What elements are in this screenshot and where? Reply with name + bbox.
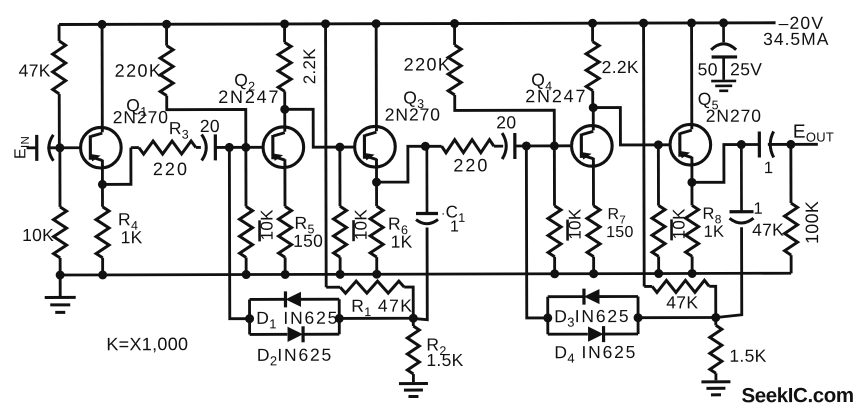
svg-text:25V: 25V bbox=[730, 59, 762, 79]
wire diode box left side (right network) bbox=[546, 297, 549, 334]
label 220 (stage 3-4) bbox=[453, 155, 489, 175]
resistor 220 coupling (stage 3-4) bbox=[442, 140, 504, 153]
resistor 2.2K load (stage 4) bbox=[586, 23, 599, 107]
svg-text:1K: 1K bbox=[704, 223, 725, 241]
wire Q1 emitter lead bbox=[101, 165, 104, 185]
label 50 bbox=[698, 59, 718, 79]
wire D3 branch top bbox=[548, 295, 638, 298]
wire Q2 collector bbox=[283, 109, 286, 129]
wire Q3 emitter to coupling network bbox=[376, 146, 441, 182]
node bus 10K-5 bbox=[655, 270, 663, 278]
overline mark (10K stage 4) bbox=[566, 220, 569, 241]
node bus R6 bbox=[373, 270, 381, 278]
label 1 (C1) bbox=[450, 218, 459, 235]
svg-text:1: 1 bbox=[450, 218, 459, 235]
label 1.5K (right) bbox=[729, 346, 766, 366]
resistor R1 47K bbox=[326, 281, 413, 318]
wire -20V supply rail bbox=[59, 23, 775, 25]
label 10K rotated (stage 3) bbox=[352, 209, 371, 241]
label R4 bbox=[118, 209, 138, 233]
wire Q5 collector to rail bbox=[690, 23, 693, 126]
resistor 100K output load bbox=[784, 144, 797, 273]
label 20 (cap) bbox=[200, 116, 220, 136]
wire rail branch to 47K bbox=[642, 23, 645, 286]
capacitor 1uF output coupling bbox=[759, 131, 773, 157]
svg-text:D4 IN625: D4 IN625 bbox=[554, 342, 637, 366]
svg-text:47K: 47K bbox=[752, 220, 784, 240]
svg-text:47K: 47K bbox=[666, 292, 698, 312]
node bus R7 bbox=[590, 270, 598, 278]
label 2N247 (Q2) bbox=[218, 87, 280, 107]
wire Q5 emitter lead bbox=[690, 162, 693, 182]
wire D2 branch bottom bbox=[250, 333, 340, 336]
svg-text:47K: 47K bbox=[19, 60, 51, 80]
wire Q5 emitter to output cap bbox=[692, 144, 759, 182]
transistor Q3 bbox=[355, 125, 396, 168]
node input/base bias junction bbox=[56, 144, 64, 152]
svg-text:2.2K: 2.2K bbox=[300, 48, 319, 85]
svg-text:220: 220 bbox=[153, 159, 189, 179]
svg-text:SeekIC.com: SeekIC.com bbox=[741, 384, 853, 407]
label R5 bbox=[295, 213, 315, 237]
node rail junction 2.2K bbox=[281, 20, 289, 28]
node Q4 base bias junction bbox=[550, 142, 558, 150]
node rail junction 47K branch bbox=[640, 19, 648, 27]
svg-text:220: 220 bbox=[453, 155, 489, 175]
wire output cap to E_OUT bbox=[768, 143, 818, 146]
label R7 bbox=[607, 206, 626, 227]
ground (R2) bbox=[399, 384, 428, 397]
ground (1.5K right) bbox=[701, 382, 730, 395]
label 47K bbox=[19, 60, 51, 80]
svg-text:D2IN625: D2IN625 bbox=[257, 345, 333, 369]
resistor 10K bias (Q4 base) bbox=[548, 146, 561, 274]
node D3-D4 right bbox=[634, 314, 642, 322]
overline mark (10K stage 3) bbox=[352, 220, 355, 241]
node Q3 emitter junction bbox=[373, 178, 381, 186]
wire D network to 1.5K node bbox=[638, 316, 716, 319]
node Q4 collector junction bbox=[589, 104, 597, 112]
capacitor 50uF 25V filter bbox=[711, 23, 737, 80]
node Q2 base bias junction bbox=[242, 143, 250, 151]
node bus ground tap bbox=[56, 271, 64, 279]
node Q5 emitter junction bbox=[688, 178, 696, 186]
wire C1 to feedback node bbox=[414, 228, 427, 320]
wire Q4 emitter lead bbox=[592, 164, 595, 206]
watermark SeekIC.com bbox=[741, 384, 853, 407]
svg-text:220K: 220K bbox=[404, 54, 452, 74]
label 10K rotated (stage 5) bbox=[670, 208, 689, 240]
label Q5 bbox=[698, 89, 719, 113]
node 47K 1.5K feedback junction bbox=[712, 313, 720, 321]
resistor 10K bias (Q5 base) bbox=[652, 145, 665, 274]
svg-text:1K: 1K bbox=[391, 232, 413, 252]
capacitor C1 bbox=[416, 146, 438, 224]
diode D3 1N625 bbox=[584, 289, 600, 305]
node rail junction R1 branch bbox=[322, 20, 330, 28]
node rail junction filter cap bbox=[720, 19, 728, 27]
wire Q3 collector to rail bbox=[375, 24, 378, 128]
wire Q3 emitter lead bbox=[375, 164, 378, 182]
node rail junction 2.2K-2 bbox=[589, 19, 597, 27]
svg-text:1K: 1K bbox=[121, 227, 143, 247]
transistor Q1 bbox=[81, 126, 122, 169]
wire cap to Q4 base bbox=[514, 144, 570, 147]
svg-text:R1 47K: R1 47K bbox=[351, 296, 413, 320]
label Q1 bbox=[126, 95, 147, 119]
label 2N247 (Q4) bbox=[525, 86, 587, 106]
capacitor C_in input coupling bbox=[37, 135, 54, 161]
node D1-D2 left bbox=[246, 315, 254, 323]
wire diode box right side bbox=[338, 299, 341, 334]
wire D4 branch bottom bbox=[548, 333, 638, 336]
svg-text:150: 150 bbox=[606, 224, 634, 241]
wire diode box right side (right network) bbox=[637, 296, 640, 333]
wire Q1 collector to rail bbox=[101, 24, 104, 129]
capacitor 1uF feedback (47K node) bbox=[729, 145, 753, 224]
node bus 10K-4 bbox=[551, 270, 559, 278]
svg-text:EOUT: EOUT bbox=[793, 122, 834, 145]
svg-text:2N247: 2N247 bbox=[218, 87, 280, 107]
resistor 47K bias (top left) bbox=[53, 24, 66, 147]
resistor R6 1K bbox=[370, 182, 383, 274]
svg-text:2N270: 2N270 bbox=[385, 104, 441, 124]
resistor R8 1K bbox=[685, 182, 698, 273]
svg-text:1.5K: 1.5K bbox=[426, 350, 463, 370]
svg-text:50: 50 bbox=[698, 59, 718, 79]
svg-text:1: 1 bbox=[764, 159, 774, 177]
label R6 bbox=[388, 214, 408, 238]
svg-text:100K: 100K bbox=[802, 201, 822, 244]
wire Q2 input to diode network bbox=[229, 147, 249, 318]
wire D network to R2 node bbox=[339, 317, 413, 320]
svg-text:D3IN625: D3IN625 bbox=[554, 306, 630, 330]
resistor 47K feedback bbox=[644, 280, 716, 317]
wire Q4 collector bbox=[592, 108, 595, 128]
resistor 10K bias (stage 3 input) bbox=[239, 147, 252, 274]
overline mark (10K stage 2) bbox=[258, 220, 261, 241]
wire Q2 emitter lead bbox=[283, 164, 286, 206]
node rail junction 220K-2 bbox=[451, 20, 459, 28]
node Q1 emitter junction bbox=[98, 180, 106, 188]
wire feedback cap to node bbox=[716, 227, 742, 317]
resistor R5 150 bbox=[278, 206, 291, 274]
capacitor 20uF coupling (stage 1-2) bbox=[202, 134, 216, 160]
label 1 (feedback cap) bbox=[753, 200, 763, 218]
node D3-D4 left bbox=[544, 314, 552, 322]
transistor Q2 bbox=[263, 126, 304, 169]
label 100K rotated bbox=[802, 201, 822, 244]
node bus R4 bbox=[99, 271, 107, 279]
wire Q1 emitter to R3 bbox=[102, 148, 131, 185]
node C1 branch junction bbox=[421, 142, 429, 150]
svg-text:220K: 220K bbox=[115, 61, 163, 81]
svg-text:1: 1 bbox=[753, 200, 763, 218]
node R1 R2 feedback junction bbox=[409, 314, 417, 322]
label 2N270 (Q5) bbox=[706, 106, 762, 126]
resistor R4 1K bbox=[96, 184, 109, 275]
label R8 bbox=[702, 205, 721, 227]
resistor 220K bias (stage 4) bbox=[448, 23, 554, 146]
wire diode box left side bbox=[248, 299, 251, 334]
label C1 bbox=[441, 202, 466, 225]
label 47K (feedback cap) bbox=[752, 220, 784, 240]
node bus R5 bbox=[281, 270, 289, 278]
node Q2 collector junction bbox=[281, 105, 289, 113]
node E_OUT junction bbox=[787, 140, 795, 148]
label -20V bbox=[779, 13, 825, 33]
svg-text:20: 20 bbox=[496, 112, 516, 132]
resistor 10K bias (Q3 base) bbox=[333, 147, 346, 274]
wire ground bus bbox=[60, 273, 791, 275]
label R1 47K bbox=[351, 296, 413, 320]
node D3 network branch bbox=[522, 142, 530, 150]
wire Q4 collector to Q5 base bbox=[593, 107, 668, 145]
wire rail branch to R1 bbox=[324, 24, 327, 287]
label 1K (R4) bbox=[121, 227, 143, 247]
label 10K rotated (stage 4) bbox=[566, 208, 585, 240]
resistor 2.2K load (stage 2) bbox=[278, 24, 291, 109]
transistor Q4 bbox=[571, 125, 612, 168]
label 10K bbox=[22, 225, 54, 245]
diode D2 1N625 bbox=[288, 326, 304, 342]
label 1.5K (R2) bbox=[426, 350, 463, 370]
resistor R7 150 bbox=[587, 206, 600, 274]
wire Q4 input to diode network bbox=[526, 146, 547, 318]
node bus 10K-2 bbox=[242, 271, 250, 279]
svg-text:20: 20 bbox=[200, 116, 220, 136]
label Q3 bbox=[403, 88, 424, 112]
svg-text:R3: R3 bbox=[169, 118, 189, 142]
transistor Q5 bbox=[670, 123, 711, 166]
label 20 (cap stage 3-4) bbox=[496, 112, 516, 132]
svg-text:150: 150 bbox=[293, 231, 323, 251]
resistor 220K bias (stage 2) bbox=[160, 24, 246, 148]
resistor R2 1.5K bbox=[407, 318, 419, 382]
ground (main) bbox=[45, 297, 76, 312]
svg-text:K=X1,000: K=X1,000 bbox=[106, 334, 188, 354]
svg-text:10K: 10K bbox=[22, 225, 54, 245]
label Q4 bbox=[531, 70, 552, 94]
wire D1 branch top bbox=[250, 298, 340, 301]
label 47K (feedback) bbox=[666, 292, 698, 312]
label 220 (R3) bbox=[153, 159, 189, 179]
svg-text:2N270: 2N270 bbox=[706, 106, 762, 126]
node D1-D2 right bbox=[335, 314, 343, 322]
wire Q2 collector to Q3 base bbox=[285, 109, 354, 147]
label 1 (output cap) bbox=[764, 159, 774, 177]
diode D4 1N625 bbox=[588, 326, 604, 342]
resistor 10K bias (stage 1) bbox=[53, 148, 66, 275]
label 1K (R6) bbox=[391, 232, 413, 252]
label K=X1,000 note bbox=[106, 334, 188, 354]
node Q3 base bias junction bbox=[336, 143, 344, 151]
label D1 1N625 bbox=[256, 308, 339, 332]
label D4 1N625 bbox=[554, 342, 637, 366]
label D3 1N625 bbox=[554, 306, 630, 330]
label 220K bbox=[115, 61, 163, 81]
node rail junction Q3 collector bbox=[372, 20, 380, 28]
label 2N270 (Q3) bbox=[385, 104, 441, 124]
svg-text:34.5MA: 34.5MA bbox=[763, 29, 829, 49]
resistor R3 220 bbox=[131, 141, 201, 154]
label 150 (R5) bbox=[293, 231, 323, 251]
label E_OUT terminal bbox=[793, 122, 834, 145]
label D2 1N625 bbox=[257, 345, 333, 369]
svg-text:1.5K: 1.5K bbox=[729, 346, 766, 366]
node rail junction 220K bbox=[163, 20, 171, 28]
label 10K rotated (stage 2) bbox=[258, 209, 277, 241]
wire E_IN lead bbox=[27, 146, 37, 149]
label 34.5MA bbox=[763, 29, 829, 49]
node bus R8 bbox=[688, 269, 696, 277]
label 2.2K (stage 4) bbox=[602, 57, 639, 77]
label 1K (R8) bbox=[704, 223, 725, 241]
wire input cap to base node bbox=[47, 146, 79, 149]
label R2 bbox=[426, 334, 446, 358]
svg-text:2N270: 2N270 bbox=[113, 107, 169, 127]
ground (filter cap) bbox=[711, 81, 736, 91]
label 2N270 (Q1) bbox=[113, 107, 169, 127]
node output cap / 47K cap junction bbox=[737, 141, 745, 149]
label R3 bbox=[169, 118, 189, 142]
node rail junction Q1 collector bbox=[98, 20, 106, 28]
wire ground lead bbox=[59, 275, 62, 297]
overline mark (10K stage 5) bbox=[670, 219, 673, 240]
svg-text:2.2K: 2.2K bbox=[602, 57, 639, 77]
node D1 network branch bbox=[225, 143, 233, 151]
diode D1 1N625 bbox=[285, 291, 301, 307]
label E_IN terminal bbox=[12, 136, 32, 159]
node Q5 base bias junction bbox=[654, 141, 662, 149]
node rail junction Q5 collector bbox=[688, 19, 696, 27]
wire cap to Q2 base bbox=[215, 146, 262, 149]
label 2.2K rotated bbox=[300, 48, 319, 85]
svg-text:2N247: 2N247 bbox=[525, 86, 587, 106]
label 220K (stage 4) bbox=[404, 54, 452, 74]
label Q2 bbox=[234, 70, 255, 94]
label 150 (R7) bbox=[606, 224, 634, 241]
resistor 1.5K (right) bbox=[710, 317, 722, 380]
capacitor 20uF coupling (stage 3-4) bbox=[502, 133, 515, 159]
label 25V bbox=[730, 59, 762, 79]
node bus 10K-3 bbox=[336, 270, 344, 278]
svg-text:D1 IN625: D1 IN625 bbox=[256, 308, 339, 332]
